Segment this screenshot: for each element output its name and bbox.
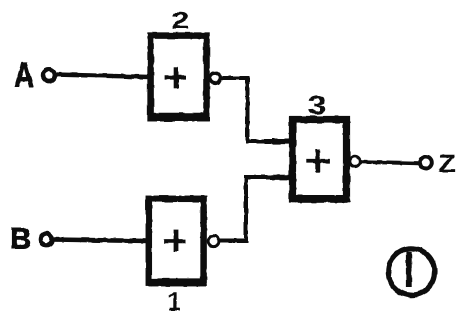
svg-text:2: 2	[171, 7, 190, 34]
svg-text:3: 3	[308, 90, 327, 120]
svg-text:B: B	[10, 224, 32, 256]
svg-text:Z: Z	[438, 150, 456, 178]
svg-text:A: A	[14, 56, 34, 95]
svg-text:1: 1	[168, 287, 182, 317]
